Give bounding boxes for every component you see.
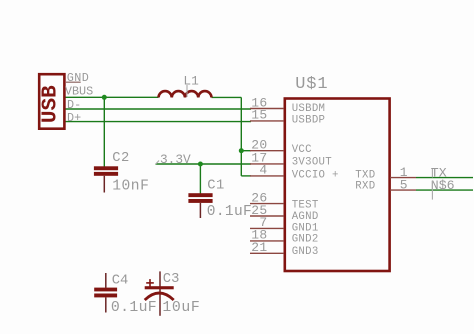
svg-text:0.1uF: 0.1uF	[207, 204, 252, 220]
svg-text:VCC: VCC	[292, 144, 312, 156]
svg-text:AGND: AGND	[292, 211, 319, 223]
svg-text:VCCIO +: VCCIO +	[292, 169, 339, 181]
svg-text:10nF: 10nF	[112, 178, 149, 194]
svg-text:C4: C4	[112, 274, 129, 289]
svg-text:5: 5	[400, 178, 408, 193]
svg-text:3V3OUT: 3V3OUT	[292, 157, 333, 169]
svg-text:USBDM: USBDM	[292, 103, 326, 115]
svg-text:GND2: GND2	[292, 234, 319, 246]
svg-text:USB: USB	[40, 85, 63, 123]
svg-text:GND3: GND3	[292, 246, 319, 258]
svg-text:D+: D+	[67, 111, 81, 125]
svg-text:D-: D-	[67, 98, 81, 112]
svg-text:VBUS: VBUS	[65, 84, 93, 98]
svg-text:0.1uF: 0.1uF	[111, 300, 157, 316]
svg-text:TXD: TXD	[355, 169, 375, 181]
svg-text:GND1: GND1	[292, 222, 319, 234]
svg-text:RXD: RXD	[355, 181, 375, 193]
svg-text:4: 4	[259, 163, 267, 178]
svg-text:TEST: TEST	[292, 199, 319, 211]
svg-text:10uF: 10uF	[162, 300, 200, 316]
svg-text:15: 15	[251, 108, 267, 123]
svg-text:C3: C3	[163, 272, 180, 287]
svg-text:N$6: N$6	[431, 178, 455, 193]
svg-text:U$1: U$1	[295, 75, 328, 94]
svg-text:C2: C2	[112, 151, 130, 166]
svg-text:GND: GND	[67, 71, 89, 85]
svg-text:USBDP: USBDP	[292, 115, 326, 127]
svg-text:21: 21	[251, 240, 267, 255]
svg-text:C1: C1	[207, 178, 225, 193]
svg-text:3.3V: 3.3V	[160, 152, 191, 167]
svg-text:L1: L1	[183, 73, 199, 88]
